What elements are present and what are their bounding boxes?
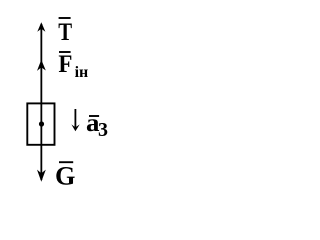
arrow inertia force up arrowhead: [37, 60, 46, 71]
svg-text:3: 3: [98, 119, 108, 141]
node center dot: [39, 121, 44, 126]
body box: [27, 103, 54, 144]
svg-text:ін: ін: [75, 64, 89, 81]
svg-text:F: F: [58, 51, 72, 78]
arrow acceleration small down arrow: [74, 109, 76, 129]
arrow gravity G down arrowhead: [37, 170, 46, 182]
wire main vertical line: [40, 24, 42, 180]
svg-text:G: G: [55, 162, 75, 191]
svg-text:T: T: [58, 18, 72, 45]
wire line through box: [40, 104, 42, 144]
arrow tension T up arrowhead: [37, 22, 45, 32]
